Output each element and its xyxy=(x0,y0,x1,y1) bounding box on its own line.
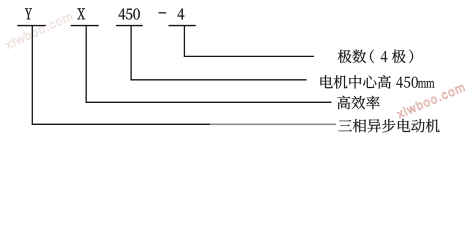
underline under 450 xyxy=(116,25,143,27)
leader line gray tail to motor-type label xyxy=(210,123,336,125)
leader line from 4 to pole-count label xyxy=(184,26,314,57)
leader line from 450 to centre-height label xyxy=(131,26,307,80)
leader line from X to efficiency label xyxy=(86,26,331,103)
label: three-phase asynchronous motor xyxy=(338,119,439,133)
label: high efficiency xyxy=(337,96,379,110)
underline under Y xyxy=(17,25,46,27)
designation letter Y xyxy=(25,8,32,19)
underline under X xyxy=(71,25,99,27)
designation number 450 xyxy=(119,8,140,19)
designation hyphen xyxy=(159,12,167,13)
designation number 4 xyxy=(178,9,185,20)
underline under 4 xyxy=(169,25,196,27)
leader line from Y to motor-type label xyxy=(32,26,210,125)
designation letter X xyxy=(77,8,85,19)
label: motor centre height 450mm xyxy=(320,75,434,89)
label: poles (4 poles) xyxy=(338,50,413,64)
